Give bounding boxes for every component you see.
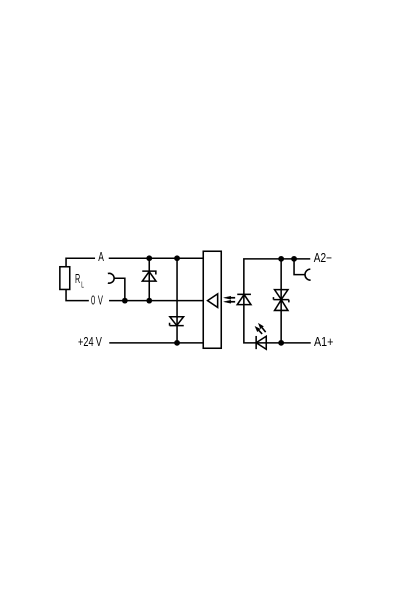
svg-text:+24: +24: [78, 336, 94, 350]
svg-text:A: A: [98, 250, 104, 264]
svg-text:0: 0: [91, 295, 95, 308]
svg-text:A1+: A1+: [314, 335, 334, 349]
svg-text:L: L: [81, 281, 84, 289]
svg-text:A2−: A2−: [314, 252, 332, 265]
svg-text:R: R: [75, 272, 80, 287]
svg-text:V: V: [96, 336, 103, 350]
svg-text:V: V: [98, 295, 103, 308]
